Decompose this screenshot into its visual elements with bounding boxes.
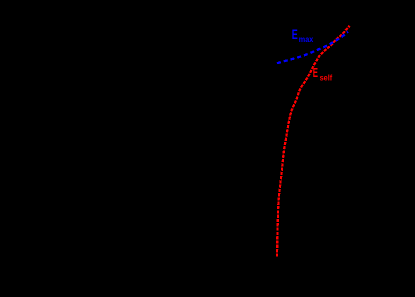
curve E_self (red dotted) [277,26,350,257]
svg-text:max: max [299,34,314,44]
label E_max (blue) [292,27,314,44]
svg-text:E: E [313,65,318,80]
svg-text:self: self [320,73,333,83]
curve E_max (blue dashed) [277,32,348,64]
label E_self (red) [313,65,333,82]
svg-text:E: E [292,27,298,42]
